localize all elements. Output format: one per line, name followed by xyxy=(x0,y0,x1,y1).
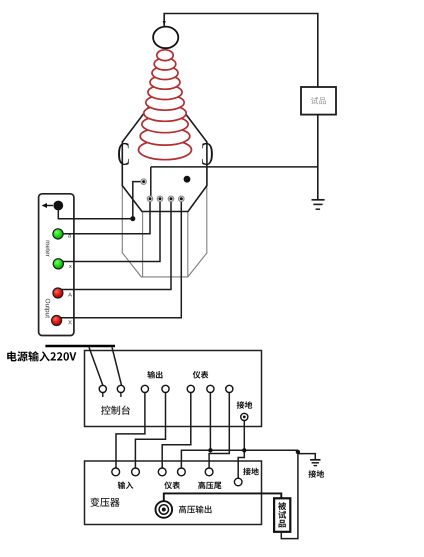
junction dot bus/earth xyxy=(242,448,246,452)
wire: bus to external ground xyxy=(298,450,315,459)
label 试 xyxy=(278,511,286,519)
wire: meter a xyxy=(60,202,150,234)
tank right lifting lug xyxy=(202,143,213,165)
label meter xyxy=(46,241,50,257)
junction dot bus/meter2 xyxy=(208,448,212,452)
transformer input terminal 2 xyxy=(132,468,140,476)
control meter terminal 2 xyxy=(207,385,214,392)
label 被 xyxy=(278,502,286,510)
ground symbol (top right) xyxy=(312,200,325,209)
wire: control meter1 to transformer meter1 xyxy=(162,393,191,468)
tank terminal x xyxy=(157,196,162,201)
label 试品 xyxy=(311,97,326,104)
label 输出 xyxy=(147,371,162,379)
wire: control output2 to transformer input2 xyxy=(135,393,165,468)
label Output xyxy=(44,299,50,318)
junction dot bus corner xyxy=(296,450,300,454)
bushing shed ring 7 xyxy=(144,105,186,121)
tank aux terminal xyxy=(141,179,146,184)
bushing shed ring 8 xyxy=(142,116,188,133)
bushing shed ring 2 xyxy=(154,58,176,70)
wire: mains to control input 1 xyxy=(89,347,103,385)
wire: output A xyxy=(60,202,171,290)
ground symbol (external, bottom) xyxy=(310,460,320,466)
wire: meter x xyxy=(60,202,160,262)
label X xyxy=(68,320,72,324)
tank terminal A xyxy=(168,196,173,201)
junction dot xyxy=(130,216,135,221)
control meter terminal 3 xyxy=(226,385,233,392)
wire: mains to control input 2 xyxy=(112,347,122,385)
wire: test piece return to bus xyxy=(281,454,298,539)
bushing shed ring 5 xyxy=(148,85,182,100)
bushing shed ring 4 xyxy=(150,75,180,89)
panel output terminal X (red) xyxy=(52,316,62,326)
HV output terminal xyxy=(156,501,173,518)
label A xyxy=(68,293,72,297)
wire: tank ground line xyxy=(151,167,318,199)
control input stubs xyxy=(103,393,121,398)
label 变压器 xyxy=(90,498,119,507)
label 电源输入220V xyxy=(7,351,76,361)
wire: output X xyxy=(60,202,181,318)
panel meter terminal a (green) xyxy=(53,229,63,239)
test piece box 被试品 xyxy=(274,498,290,532)
bushing shed ring 9 xyxy=(140,128,190,146)
transformer meter terminal 1 xyxy=(158,468,166,476)
transformer input terminal 1 xyxy=(112,468,120,476)
wire: control meter2 down to ground bus xyxy=(209,393,211,451)
label 接地 (external ground) xyxy=(309,470,325,478)
wire: bushing top to test object xyxy=(164,14,318,88)
mains input bar xyxy=(45,345,115,348)
label 接地 (control) xyxy=(237,401,253,409)
tank HV tail terminal (black) xyxy=(184,176,191,183)
control earth terminal xyxy=(241,413,248,420)
label a xyxy=(68,235,71,238)
control console box 控制台 xyxy=(85,351,262,427)
panel meter terminal x (green) xyxy=(53,259,63,269)
tank terminal X xyxy=(179,196,184,201)
bushing shed ring 10 xyxy=(139,140,192,160)
label 控制台 xyxy=(101,406,130,415)
label 仪表 xyxy=(193,371,209,379)
wire: test object down to ground xyxy=(317,115,319,200)
label 仪表 xyxy=(164,482,180,490)
control input terminal 1 xyxy=(99,385,106,392)
transformer box 变压器 xyxy=(85,461,262,525)
bushing top corona ball xyxy=(153,27,178,49)
control output terminal 2 xyxy=(162,385,169,392)
tank terminal a xyxy=(147,196,152,201)
label 输入 xyxy=(118,481,134,489)
transformer tank lower body (3D hidden edges) xyxy=(122,186,207,277)
ground bus xyxy=(181,450,298,468)
HV output wire xyxy=(164,493,281,501)
transformer earth terminal xyxy=(234,478,242,486)
arrowhead on bushing feed wire xyxy=(163,21,166,26)
test object box 试品 xyxy=(301,87,336,115)
control input terminal 2 xyxy=(117,385,124,392)
wire: control meter3 to transformer HV tail xyxy=(209,393,229,468)
earth arrow xyxy=(46,205,53,207)
label 高压输出 xyxy=(179,505,212,513)
bushing shed ring 3 xyxy=(152,67,178,80)
label x xyxy=(69,265,72,268)
control output terminal 1 xyxy=(141,385,148,392)
wire: control output1 to transformer input1 xyxy=(116,393,145,468)
bushing shed ring 6 xyxy=(146,95,184,110)
label 高压尾 xyxy=(198,481,221,489)
label 品 xyxy=(279,520,286,528)
transformer HV tail terminal xyxy=(205,468,213,476)
panel earth terminal xyxy=(53,201,63,211)
transformer meter terminal 2 xyxy=(178,468,186,476)
bushing shed ring 1 xyxy=(157,50,173,61)
label 接地 (transformer) xyxy=(243,468,259,476)
wire: control earth to transformer earth xyxy=(238,417,244,478)
panel output terminal A (red) xyxy=(53,288,63,298)
HV test transformer tank body xyxy=(122,86,207,212)
operation panel box xyxy=(39,194,74,336)
wire: panel earth terminal to tank aux terminal xyxy=(58,182,141,219)
tank left lifting lug xyxy=(118,143,129,165)
control meter terminal 1 xyxy=(187,385,194,392)
